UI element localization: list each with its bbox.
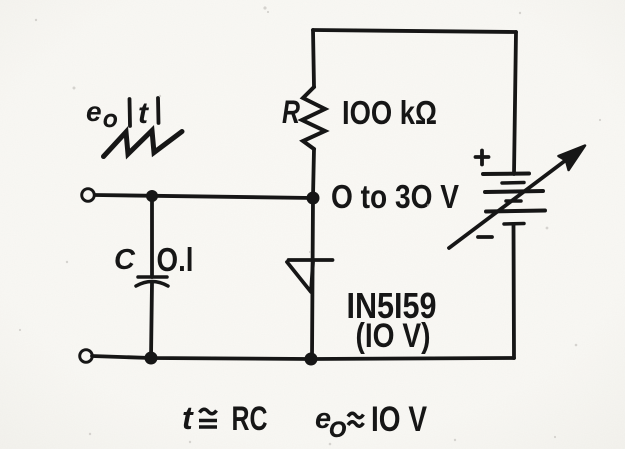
svg-text:O: O bbox=[329, 417, 346, 442]
wire: top rail bbox=[313, 30, 516, 32]
zener diode D1 (triangle) bbox=[287, 262, 313, 292]
wire: resistor top lead bbox=[313, 30, 314, 87]
svg-text:IO V: IO V bbox=[371, 400, 428, 439]
capacitor C bbox=[138, 275, 167, 279]
label e_O |t| (bars) bbox=[128, 99, 132, 126]
node: capacitor top junction bbox=[146, 190, 158, 202]
svg-text:IOO kΩ: IOO kΩ bbox=[342, 94, 437, 131]
wire: capacitor bottom lead bbox=[151, 283, 152, 358]
zener diode D1 (cathode bar) bbox=[289, 258, 333, 262]
svg-text:e: e bbox=[86, 96, 102, 127]
svg-text:O to 3O V: O to 3O V bbox=[331, 178, 459, 215]
wire: middle rail bbox=[95, 195, 313, 198]
svg-text:(IO V): (IO V) bbox=[356, 317, 431, 355]
wire: resistor bottom lead bbox=[313, 149, 314, 197]
resistor R bbox=[302, 87, 325, 149]
terminal: output top (open circle) bbox=[82, 189, 95, 202]
node: middle junction at zener/resistor bbox=[307, 192, 320, 205]
symbol ≈ in e_O ≈ 10 V bbox=[348, 413, 363, 418]
wire: capacitor top lead bbox=[150, 196, 154, 277]
svg-text:t: t bbox=[182, 400, 194, 436]
svg-text:RC: RC bbox=[232, 400, 268, 438]
svg-text:O: O bbox=[103, 111, 117, 131]
node: bottom junction at zener bbox=[305, 353, 318, 366]
wire: battery bottom lead bbox=[512, 224, 516, 358]
svg-text:O.l: O.l bbox=[157, 241, 194, 278]
symbol ≅ in t ≅ RC bbox=[200, 409, 217, 414]
node: bottom junction at capacitor bbox=[145, 352, 158, 365]
label: battery plus bbox=[476, 155, 489, 159]
label: battery minus bbox=[478, 235, 492, 239]
battery B1 plates bbox=[483, 172, 529, 177]
wire: zener branch vertical bbox=[312, 198, 313, 359]
svg-text:C: C bbox=[114, 244, 136, 276]
svg-text:R: R bbox=[282, 94, 300, 130]
waveform symbol: sawtooth e_O(t) bbox=[104, 131, 183, 157]
wire: bottom rail bbox=[92, 356, 514, 359]
terminal: output bottom (open circle) bbox=[80, 350, 93, 363]
battery variability arrow bbox=[449, 156, 572, 249]
wire: battery top lead bbox=[514, 32, 516, 174]
